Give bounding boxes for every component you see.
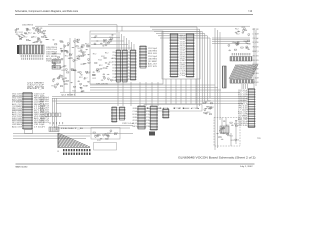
svg-text:U30 REG: U30 REG xyxy=(148,58,158,60)
svg-text:R12: R12 xyxy=(99,65,103,67)
right filter cluster xyxy=(228,40,251,51)
svg-text:Schematics, Component Location: Schematics, Component Location Diagrams,… xyxy=(15,10,79,13)
svg-text:C322 0.1uF: C322 0.1uF xyxy=(112,52,116,54)
svg-text:R12: R12 xyxy=(24,37,28,39)
svg-text:L7 10uH: L7 10uH xyxy=(253,33,259,35)
svg-text:R77 47K: R77 47K xyxy=(238,113,248,115)
svg-text:C91 10pF: C91 10pF xyxy=(40,99,49,101)
svg-text:R12: R12 xyxy=(86,73,90,75)
svg-text:C322 0.1uF: C322 0.1uF xyxy=(112,68,116,70)
connector J101 shell box xyxy=(25,130,33,134)
IC U505 side labels xyxy=(146,108,150,128)
IC U601 inside option box xyxy=(220,126,229,133)
hatched box K2 mid-left xyxy=(52,66,61,70)
svg-text:U30 REG: U30 REG xyxy=(22,24,34,26)
svg-text:VR2 5.6V: VR2 5.6V xyxy=(238,108,248,110)
svg-text:C322 0.1uF: C322 0.1uF xyxy=(180,37,185,39)
svg-text:R12: R12 xyxy=(97,140,101,142)
wire bottom-left bundle xyxy=(13,98,133,139)
resistor pack row xyxy=(45,113,61,117)
svg-text:R77 47K: R77 47K xyxy=(238,92,248,94)
svg-text:VR2 5.6V: VR2 5.6V xyxy=(238,106,248,108)
svg-text:R12: R12 xyxy=(98,69,102,71)
flex fan left edge xyxy=(57,133,59,148)
IC U404 labels xyxy=(148,48,158,68)
svg-text:RESET_B: RESET_B xyxy=(40,118,49,120)
driver cluster above keypad box xyxy=(97,134,110,142)
svg-text:R12: R12 xyxy=(103,42,107,44)
svg-text:R12: R12 xyxy=(65,56,69,58)
audio amp box bottom center xyxy=(91,128,120,140)
svg-text:R12: R12 xyxy=(98,59,102,61)
svg-text:C322 0.1uF: C322 0.1uF xyxy=(238,90,248,92)
svg-text:R77 47K: R77 47K xyxy=(12,100,22,102)
RF jumper cluster top right xyxy=(235,27,250,36)
wire top horizontal bus xyxy=(35,25,250,26)
bus resistor row box xyxy=(144,105,202,112)
svg-text:VDD 2.85V: VDD 2.85V xyxy=(12,94,22,96)
IC U401 xyxy=(117,50,121,82)
svg-text:R12: R12 xyxy=(15,32,19,34)
wire center box internal horizontals xyxy=(91,34,132,48)
svg-text:Q12 MMBT: Q12 MMBT xyxy=(27,83,44,85)
svg-text:C322 0.1uF: C322 0.1uF xyxy=(27,84,44,86)
svg-text:R12: R12 xyxy=(114,133,118,135)
svg-text:C322 0.1uF: C322 0.1uF xyxy=(34,94,45,96)
svg-text:SPI_MOSI: SPI_MOSI xyxy=(12,122,23,124)
svg-text:VDD 2.85V: VDD 2.85V xyxy=(253,60,259,62)
svg-text:C322 0.1uF: C322 0.1uF xyxy=(146,117,150,119)
svg-text:VDD 2.85V: VDD 2.85V xyxy=(146,108,150,110)
svg-text:C91 10pF: C91 10pF xyxy=(40,97,49,99)
bus labels above mid bus xyxy=(61,95,75,97)
svg-text:U30 REG: U30 REG xyxy=(180,64,185,66)
svg-text:VDD 2.85V: VDD 2.85V xyxy=(180,43,185,45)
wire right edge verticals xyxy=(254,28,256,88)
wire right-side drops to connector xyxy=(242,84,247,89)
svg-text:C91 10pF: C91 10pF xyxy=(253,38,259,40)
svg-text:C322 0.1uF: C322 0.1uF xyxy=(180,52,185,54)
IC U404 xyxy=(140,46,146,68)
svg-text:R77 47K: R77 47K xyxy=(253,29,259,31)
svg-text:RESET_B: RESET_B xyxy=(40,105,49,107)
svg-text:R12: R12 xyxy=(28,33,32,35)
connector J104 body xyxy=(19,45,44,54)
svg-text:C91 10pF: C91 10pF xyxy=(180,50,185,52)
connector J101 right pin labels xyxy=(34,94,46,129)
shield box outline center-right xyxy=(162,32,200,80)
discrete components mid-left cluster xyxy=(52,39,91,92)
connector P1 center labels xyxy=(180,35,185,77)
svg-text:SPI_MOSI: SPI_MOSI xyxy=(253,42,259,44)
flex fan bottom-left triangle xyxy=(58,133,90,147)
IC U502 xyxy=(112,107,117,122)
svg-text:RESET_B: RESET_B xyxy=(128,67,131,69)
svg-text:R12: R12 xyxy=(107,133,111,135)
regulator cluster right-mid xyxy=(203,101,213,115)
svg-text:C91 10pF: C91 10pF xyxy=(112,74,116,76)
svg-text:SPI_MOSI: SPI_MOSI xyxy=(128,58,131,60)
wire mid horizontal bus group A xyxy=(60,85,240,93)
svg-text:Q12 MMBT: Q12 MMBT xyxy=(180,60,185,62)
svg-text:R401 100K: R401 100K xyxy=(148,53,157,55)
svg-text:U30 REG: U30 REG xyxy=(148,51,158,53)
svg-text:July 1, 2002: July 1, 2002 xyxy=(240,166,253,168)
svg-text:R12: R12 xyxy=(242,27,246,29)
svg-text:C322 0.1uF: C322 0.1uF xyxy=(112,80,116,82)
svg-text:Q12 MMBT: Q12 MMBT xyxy=(146,126,150,128)
svg-text:R12: R12 xyxy=(33,36,37,38)
IC U402-403 labels xyxy=(128,52,131,81)
svg-text:Q12 MMBT: Q12 MMBT xyxy=(148,61,157,63)
svg-text:C91 10pF: C91 10pF xyxy=(148,48,157,50)
svg-text:SPI_MOSI: SPI_MOSI xyxy=(96,83,109,85)
keypad box outline xyxy=(94,143,117,151)
svg-text:R401 100K: R401 100K xyxy=(40,101,49,103)
flex fan right (diagonals up-right) xyxy=(229,65,258,80)
svg-text:L7 10uH: L7 10uH xyxy=(238,110,248,112)
svg-text:L7 10uH: L7 10uH xyxy=(128,61,131,63)
svg-text:L7 10uH: L7 10uH xyxy=(146,123,150,125)
svg-text:L7 10uH: L7 10uH xyxy=(253,77,259,79)
svg-text:R12: R12 xyxy=(244,41,248,43)
svg-text:R77 47K: R77 47K xyxy=(148,66,157,68)
svg-text:VDD 2.85V: VDD 2.85V xyxy=(12,116,22,118)
svg-text:SPI_MOSI: SPI_MOSI xyxy=(180,73,185,75)
wire right vertical bus xyxy=(215,28,220,150)
IC U506 xyxy=(163,109,169,118)
wire center vertical drops xyxy=(118,82,158,106)
svg-text:C322 0.1uF: C322 0.1uF xyxy=(180,48,185,50)
svg-text:R77 47K: R77 47K xyxy=(128,76,131,78)
svg-text:VR2 5.6V: VR2 5.6V xyxy=(133,120,138,122)
svg-text:U30 REG: U30 REG xyxy=(12,124,23,126)
svg-text:VR2 5.6V: VR2 5.6V xyxy=(253,82,259,84)
dashed option box xyxy=(214,118,240,147)
svg-text:SPI_MOSI: SPI_MOSI xyxy=(27,86,45,88)
wire verticals in option box xyxy=(222,118,236,147)
svg-text:L7 10uH: L7 10uH xyxy=(180,75,185,77)
svg-text:R401 100K: R401 100K xyxy=(238,96,248,98)
svg-text:SPI_MOSI: SPI_MOSI xyxy=(128,64,131,66)
svg-text:VR2 5.6V: VR2 5.6V xyxy=(238,125,248,127)
connector J2 pin row upper xyxy=(231,53,251,55)
svg-text:L7 10uH: L7 10uH xyxy=(34,126,45,128)
svg-text:R12: R12 xyxy=(210,107,214,109)
svg-text:RESET_B: RESET_B xyxy=(133,126,138,128)
svg-text:Q12 MMBT: Q12 MMBT xyxy=(253,69,259,71)
svg-text:R12: R12 xyxy=(62,70,66,72)
svg-text:R401 100K: R401 100K xyxy=(128,55,131,57)
svg-text:VDD 2.85V: VDD 2.85V xyxy=(180,67,185,69)
wire top-right entry bundle xyxy=(212,38,250,43)
svg-text:RESET_B: RESET_B xyxy=(238,104,248,106)
svg-text:VR2 5.6V: VR2 5.6V xyxy=(180,54,185,56)
IC U403 xyxy=(131,50,136,80)
svg-text:R12: R12 xyxy=(83,51,87,53)
connector J104 labels xyxy=(46,47,58,58)
svg-text:VDD 2.85V: VDD 2.85V xyxy=(253,55,259,57)
svg-text:VR2 5.6V: VR2 5.6V xyxy=(40,122,49,124)
IC U402 xyxy=(123,50,128,82)
svg-text:VR2 5.6V: VR2 5.6V xyxy=(12,108,22,110)
svg-text:C322 0.1uF: C322 0.1uF xyxy=(238,98,248,100)
svg-text:R12: R12 xyxy=(72,90,76,92)
svg-text:C91 10pF: C91 10pF xyxy=(40,116,49,118)
svg-text:R12: R12 xyxy=(93,78,97,80)
svg-text:RESET_B: RESET_B xyxy=(61,128,83,130)
footer rule xyxy=(16,163,255,165)
svg-text:VR2 5.6V: VR2 5.6V xyxy=(40,120,49,122)
svg-text:RESET_B: RESET_B xyxy=(253,51,259,53)
connector J501 body right xyxy=(249,89,255,128)
svg-text:C322 0.1uF: C322 0.1uF xyxy=(122,123,134,125)
svg-text:VDD 2.85V: VDD 2.85V xyxy=(180,39,185,41)
svg-text:R12: R12 xyxy=(78,48,82,50)
vertical stub row xyxy=(50,122,63,124)
svg-text:Q12 MMBT: Q12 MMBT xyxy=(12,106,22,108)
audio amp box contents xyxy=(93,130,118,138)
svg-text:C91 10pF: C91 10pF xyxy=(146,114,150,116)
wire vertical pair mid-left xyxy=(64,38,75,96)
option box contents xyxy=(216,120,239,142)
connector J104 dark end cap xyxy=(17,45,19,54)
svg-text:SPI_MOSI: SPI_MOSI xyxy=(128,73,131,75)
svg-text:R77 47K: R77 47K xyxy=(180,46,185,48)
svg-text:R12: R12 xyxy=(54,84,58,86)
svg-text:R77 47K: R77 47K xyxy=(238,94,248,96)
connector J104 pin row lower xyxy=(21,58,44,60)
connector J501 labels xyxy=(238,90,249,127)
svg-text:RESET_B: RESET_B xyxy=(27,88,44,90)
svg-text:R12: R12 xyxy=(101,56,105,58)
wire vertical from top bus xyxy=(117,25,122,50)
wire big-box vertical drops xyxy=(166,79,196,104)
svg-text:R12: R12 xyxy=(105,52,109,54)
svg-text:L7 10uH: L7 10uH xyxy=(133,111,138,113)
IC U504 xyxy=(138,106,145,129)
connector J2 pin row lower xyxy=(230,80,254,84)
svg-text:RESET_B: RESET_B xyxy=(180,35,185,37)
svg-text:L7 10uH: L7 10uH xyxy=(12,102,22,104)
svg-text:C322 0.1uF: C322 0.1uF xyxy=(238,102,248,104)
svg-text:R401 100K: R401 100K xyxy=(40,110,49,112)
labels under bottom ICs xyxy=(122,123,134,125)
svg-text:R12: R12 xyxy=(231,140,235,142)
svg-text:R401 100K: R401 100K xyxy=(180,62,185,64)
svg-text:VDD 2.85V: VDD 2.85V xyxy=(12,98,22,100)
svg-text:R12: R12 xyxy=(85,44,89,46)
svg-text:C91 10pF: C91 10pF xyxy=(180,56,185,58)
svg-text:R12: R12 xyxy=(79,77,83,79)
svg-text:R12: R12 xyxy=(79,51,83,53)
svg-text:R12: R12 xyxy=(57,54,61,56)
svg-text:L7 10uH: L7 10uH xyxy=(112,77,116,79)
connector P1 strip left xyxy=(171,34,178,78)
svg-text:MARO10JNZ: MARO10JNZ xyxy=(16,165,29,168)
bus labels above mid bus 2 xyxy=(96,83,109,85)
svg-text:R401 100K: R401 100K xyxy=(40,103,49,105)
IC U505 xyxy=(151,106,158,130)
svg-text:R401 100K: R401 100K xyxy=(133,114,138,116)
wire nested corners top right xyxy=(150,27,210,108)
header rule xyxy=(15,14,253,16)
svg-text:U30 REG: U30 REG xyxy=(146,120,150,122)
bus resistor row contents xyxy=(146,108,204,110)
IC U503 xyxy=(120,107,125,120)
connector J3 row 2 xyxy=(63,153,91,155)
svg-text:VDD 2.85V: VDD 2.85V xyxy=(180,41,185,43)
center analog cluster xyxy=(92,52,113,81)
opamp cluster top of center box xyxy=(94,35,114,47)
svg-text:VR2 5.6V: VR2 5.6V xyxy=(253,47,259,49)
IC U504 side labels xyxy=(133,108,138,128)
svg-text:L7 10uH: L7 10uH xyxy=(180,71,185,73)
svg-text:VR2 5.6V: VR2 5.6V xyxy=(180,58,185,60)
labels right of B401 xyxy=(61,128,83,130)
dark component U507 xyxy=(149,132,155,136)
small box B401 xyxy=(49,127,59,132)
audio PA circuit cluster top-left xyxy=(15,27,49,43)
svg-text:C322 0.1uF: C322 0.1uF xyxy=(238,121,248,123)
svg-text:C91 10pF: C91 10pF xyxy=(112,58,116,60)
svg-text:Q12 MMBT: Q12 MMBT xyxy=(128,52,131,54)
svg-text:Q12 MMBT: Q12 MMBT xyxy=(61,95,75,97)
svg-text:R12: R12 xyxy=(247,44,251,46)
dark key block right edge xyxy=(223,66,227,88)
shield box outline center xyxy=(90,31,163,84)
EMI filter block right xyxy=(230,57,252,62)
connector P1 strip right xyxy=(187,34,194,78)
svg-text:R401 100K: R401 100K xyxy=(253,64,259,66)
svg-text:R12: R12 xyxy=(207,101,211,103)
svg-text:U30 REG: U30 REG xyxy=(238,123,249,125)
flex fan bottom edge xyxy=(58,147,91,149)
connector J101 left pin labels xyxy=(12,94,23,129)
svg-text:R12: R12 xyxy=(109,37,113,39)
svg-text:R12: R12 xyxy=(81,64,85,66)
svg-text:U30 REG: U30 REG xyxy=(133,117,138,119)
svg-text:J3: J3 xyxy=(57,151,59,153)
svg-text:SPI_MOSI: SPI_MOSI xyxy=(112,64,116,66)
wire left edge stubs xyxy=(12,96,22,120)
svg-text:U30 REG: U30 REG xyxy=(133,108,138,110)
svg-text:R12: R12 xyxy=(236,34,240,36)
note text block xyxy=(27,83,45,91)
svg-text:C91 10pF: C91 10pF xyxy=(34,124,45,126)
svg-text:SPI_MOSI: SPI_MOSI xyxy=(146,111,150,113)
wire mid horizontal bus group B xyxy=(52,96,250,103)
IC U401 labels xyxy=(112,52,116,82)
svg-text:R12: R12 xyxy=(84,78,88,80)
resistor network labels under J104 xyxy=(46,58,59,63)
connector label column bottom-left xyxy=(40,97,49,124)
svg-text:R12: R12 xyxy=(93,54,97,56)
svg-text:R77 47K: R77 47K xyxy=(112,71,116,73)
svg-text:VR2 5.6V: VR2 5.6V xyxy=(40,112,49,114)
svg-text:R12: R12 xyxy=(235,29,239,31)
connector J101 body xyxy=(23,93,32,130)
svg-text:SPI_MOSI: SPI_MOSI xyxy=(46,56,58,58)
svg-text:GLN6964B VOCON Board Schematic: GLN6964B VOCON Board Schematic (Sheet 2 … xyxy=(178,157,256,160)
svg-text:7-19: 7-19 xyxy=(248,10,252,13)
connector J3 row 1 xyxy=(63,149,91,151)
svg-text:R77 47K: R77 47K xyxy=(180,69,185,71)
svg-text:Q12 MMBT: Q12 MMBT xyxy=(238,115,248,117)
svg-text:RESET_B: RESET_B xyxy=(128,79,131,81)
svg-text:VDD 2.85V: VDD 2.85V xyxy=(128,70,131,72)
wire center vertical bundle above ICs xyxy=(119,32,134,50)
connector J104 pin row upper xyxy=(20,55,44,57)
svg-text:U30 REG: U30 REG xyxy=(238,100,249,102)
hatched box K1 mid-left xyxy=(52,60,61,64)
svg-text:C91 10pF: C91 10pF xyxy=(148,56,157,58)
right edge net labels xyxy=(253,29,260,84)
svg-text:R12: R12 xyxy=(106,136,110,138)
svg-text:L7 10uH: L7 10uH xyxy=(112,55,116,57)
net label top wire start xyxy=(22,24,34,26)
svg-text:R77 47K: R77 47K xyxy=(12,120,22,122)
svg-text:C322 0.1uF: C322 0.1uF xyxy=(40,114,49,116)
